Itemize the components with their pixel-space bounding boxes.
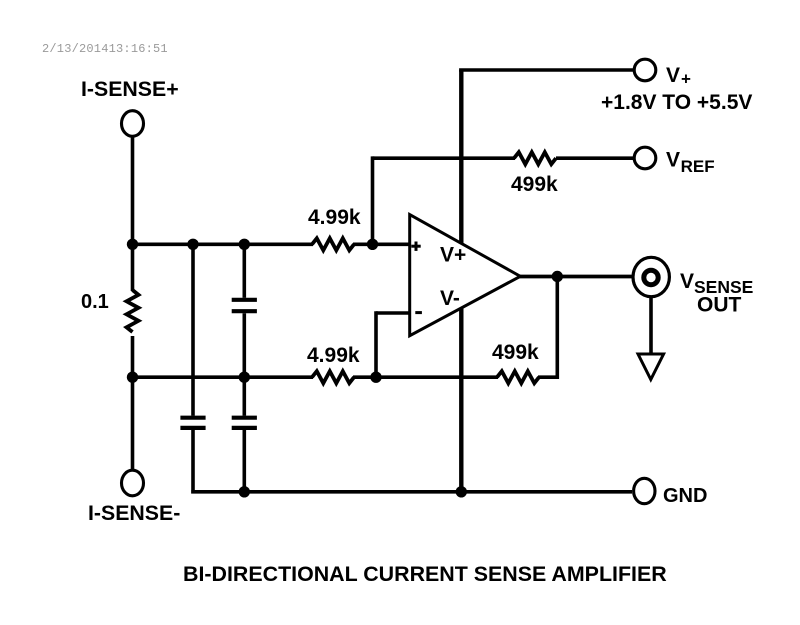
label VSENSE: [680, 270, 753, 297]
terminal V+: [634, 59, 656, 81]
resistor 0.1 (shunt): [127, 290, 139, 332]
svg-text:REF: REF: [681, 157, 715, 176]
wire: VREF horizontal right segment to terminal: [556, 156, 634, 160]
resistor 499k (feedback to VREF): [514, 152, 556, 164]
junction dot (-input node, lower wire): [370, 372, 381, 383]
wire: I-SENSE+ lead vertical: [131, 137, 135, 291]
terminal VSENSE OUT: [633, 257, 669, 296]
resistor 4.99k (upper): [312, 238, 354, 250]
junction dot (I-SENSE+ node, top wire): [127, 239, 138, 250]
svg-text:2/13/201413:16:51: 2/13/201413:16:51: [42, 42, 168, 56]
resistor 4.99k (lower): [312, 371, 354, 383]
wire: feedback vertical from output (x=557.3): [555, 277, 559, 379]
label VREF: [666, 149, 715, 176]
svg-text:4.99k: 4.99k: [308, 206, 361, 229]
capacitor C1 (left lower): [180, 418, 205, 428]
svg-text:I-SENSE-: I-SENSE-: [88, 501, 180, 525]
junction dot (I-SENSE- node, lower wire): [127, 372, 138, 383]
wire: VREF horizontal left segment: [373, 156, 516, 160]
svg-text:V: V: [666, 149, 680, 172]
terminal GND: [634, 478, 655, 503]
op-amp - input marker: [415, 311, 422, 314]
svg-text:+: +: [681, 70, 691, 89]
wire: top supply horizontal to V+ terminal: [459, 68, 634, 72]
wire: V+ supply vertical (x=461): [459, 70, 463, 492]
svg-text:I-SENSE+: I-SENSE+: [81, 77, 179, 101]
wire: minus input horizontal: [376, 311, 411, 315]
junction dot (cap col 2, top wire): [239, 239, 250, 250]
wire: top main horizontal (I-SENSE+ node to 4.99k): [133, 243, 314, 247]
junction dot (cap col 2, lower wire): [239, 372, 250, 383]
wire: lower main horizontal (left of 4.99k): [133, 375, 314, 379]
svg-text:V: V: [666, 64, 680, 87]
svg-text:4.99k: 4.99k: [307, 344, 360, 367]
svg-text:499k: 499k: [511, 173, 558, 196]
svg-text:OUT: OUT: [697, 294, 742, 317]
svg-text:GND: GND: [663, 485, 707, 507]
wire: output horizontal: [519, 275, 633, 279]
svg-text:V-: V-: [440, 287, 460, 310]
wire: lower main horizontal (between resistors): [353, 375, 498, 379]
capacitor C2 (middle upper): [232, 300, 257, 311]
wire: cap column 2 vertical middle: [243, 313, 247, 416]
svg-text:BI-DIRECTIONAL CURRENT SENSE A: BI-DIRECTIONAL CURRENT SENSE AMPLIFIER: [183, 562, 667, 586]
terminal I-SENSE-: [122, 470, 144, 496]
junction dot (cap col 1, top wire): [187, 239, 198, 250]
terminal VREF: [634, 147, 656, 169]
junction dot (output node): [552, 271, 563, 282]
label V+ terminal: [666, 64, 691, 89]
wire: shunt lower lead vertical: [131, 336, 135, 472]
wire: cap column 1 vertical lower: [191, 430, 195, 494]
wire: cap column 1 vertical upper (x=193): [191, 244, 195, 415]
arrow (output direction): [638, 354, 664, 380]
svg-text:+1.8V TO +5.5V: +1.8V TO +5.5V: [601, 91, 752, 114]
op-amp U1: [410, 215, 521, 336]
svg-text:V+: V+: [440, 244, 466, 267]
wire: lower feedback right segment: [538, 375, 559, 379]
resistor 499k (lower feedback): [497, 371, 539, 383]
wire: cap column 2 vertical top (x=244.3): [243, 244, 247, 297]
wire: bottom ground horizontal: [191, 490, 632, 494]
svg-text:V: V: [680, 270, 694, 293]
capacitor C3 (middle lower): [232, 418, 257, 428]
wire: minus input vertical (x=376): [374, 311, 378, 377]
svg-text:499k: 499k: [492, 341, 539, 364]
junction dot (+input node, top wire): [367, 239, 378, 250]
junction dot (supply vertical, ground wire): [456, 486, 467, 497]
terminal I-SENSE+: [122, 111, 144, 137]
wire: top main horizontal to op-amp + input: [353, 243, 411, 247]
svg-text:0.1: 0.1: [81, 291, 109, 313]
wire: feedback vertical (x=372.5): [371, 156, 375, 244]
op-amp + input marker: [411, 242, 420, 251]
wire: cap column 2 vertical bottom: [243, 430, 247, 492]
wire: VSENSE output down lead: [649, 296, 653, 353]
junction dot (cap col 2, ground wire): [239, 486, 250, 497]
